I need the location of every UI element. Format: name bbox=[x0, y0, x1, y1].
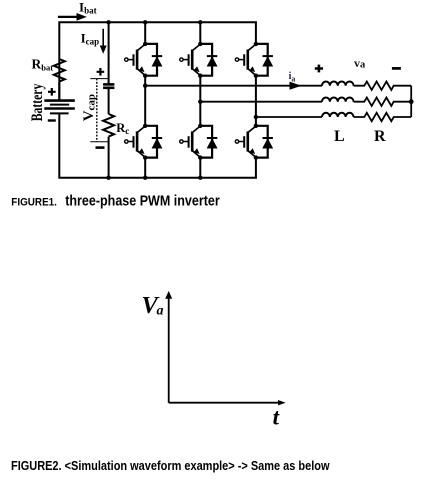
svg-text:L: L bbox=[334, 128, 345, 145]
svg-text:ia: ia bbox=[289, 71, 296, 84]
svg-text:va: va bbox=[354, 56, 366, 71]
svg-text:Icap: Icap bbox=[81, 31, 100, 47]
svg-text:FIGURE2. <Simulation waveform: FIGURE2. <Simulation waveform example> -… bbox=[11, 458, 330, 473]
svg-text:Ibat: Ibat bbox=[79, 0, 97, 16]
svg-text:a: a bbox=[157, 304, 164, 319]
svg-text:Rc: Rc bbox=[116, 121, 129, 136]
svg-text:Battery: Battery bbox=[29, 84, 46, 122]
svg-text:FIGURE1.: FIGURE1. bbox=[11, 197, 57, 209]
svg-text:Rbat: Rbat bbox=[32, 57, 54, 73]
svg-text:t: t bbox=[273, 405, 280, 430]
svg-text:R: R bbox=[374, 128, 386, 145]
svg-text:three-phase PWM inverter: three-phase PWM inverter bbox=[65, 191, 220, 208]
svg-text:Vcap: Vcap bbox=[81, 94, 98, 121]
